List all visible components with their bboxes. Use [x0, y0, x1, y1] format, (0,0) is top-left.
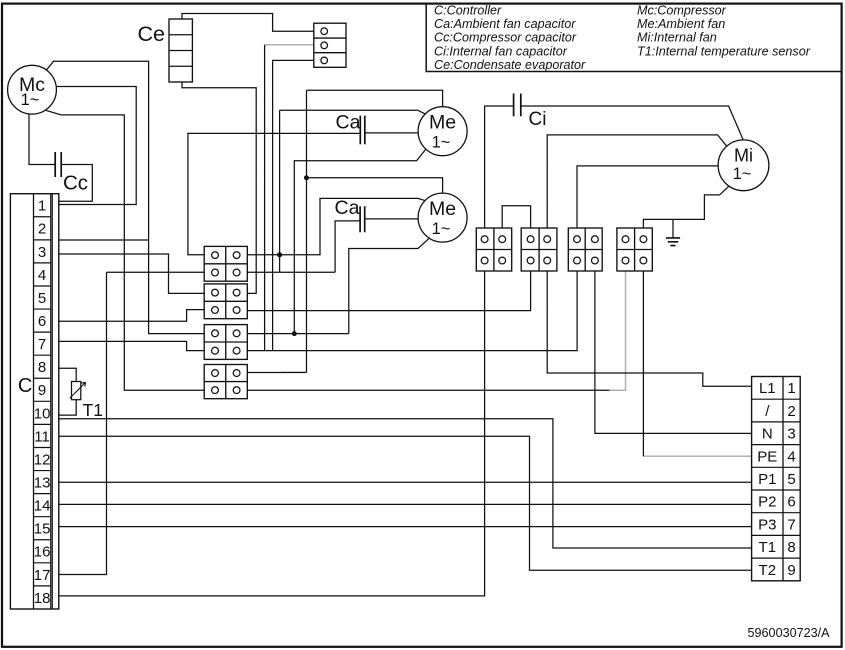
svg-text:10: 10: [34, 405, 51, 422]
svg-text:1~: 1~: [432, 220, 451, 238]
svg-text:Ca:Ambient fan capacitor: Ca:Ambient fan capacitor: [434, 17, 576, 31]
svg-text:2: 2: [38, 221, 46, 238]
svg-text:5: 5: [787, 471, 795, 488]
svg-text:P2: P2: [758, 494, 776, 511]
svg-text:L1: L1: [759, 380, 776, 397]
svg-text:1~: 1~: [21, 91, 40, 109]
svg-text:6: 6: [38, 313, 46, 330]
svg-text:Ci: Ci: [529, 109, 547, 130]
svg-text:17: 17: [34, 567, 51, 584]
svg-text:5960030723/A: 5960030723/A: [748, 626, 831, 640]
svg-text:Ci:Internal fan capacitor: Ci:Internal fan capacitor: [434, 44, 568, 58]
svg-text:14: 14: [34, 498, 51, 515]
svg-text:5: 5: [38, 290, 46, 307]
svg-text:9: 9: [787, 562, 795, 579]
svg-text:Ce: Ce: [138, 22, 165, 46]
svg-text:Ca: Ca: [336, 111, 361, 133]
svg-text:C:Controller: C:Controller: [434, 4, 502, 18]
svg-text:13: 13: [34, 474, 51, 491]
svg-text:1: 1: [38, 198, 46, 215]
svg-text:Me: Me: [429, 112, 456, 134]
svg-text:T1:Internal temperature sensor: T1:Internal temperature sensor: [637, 44, 811, 58]
svg-text:PE: PE: [757, 448, 777, 465]
svg-text:T2: T2: [759, 562, 777, 579]
svg-text:11: 11: [34, 428, 50, 445]
svg-text:3: 3: [38, 244, 46, 261]
svg-text:Ca: Ca: [335, 197, 360, 219]
svg-text:4: 4: [38, 267, 46, 284]
svg-text:8: 8: [38, 359, 46, 376]
svg-text:18: 18: [34, 590, 51, 607]
svg-text:Ce:Condensate evaporator: Ce:Condensate evaporator: [434, 58, 586, 72]
svg-text:3: 3: [787, 426, 795, 443]
svg-text:8: 8: [787, 539, 795, 556]
svg-text:15: 15: [34, 521, 51, 538]
svg-text:T1: T1: [83, 400, 103, 420]
svg-text:T1: T1: [759, 539, 777, 556]
svg-text:Mc:Compressor: Mc:Compressor: [637, 4, 727, 18]
svg-text:1: 1: [787, 380, 795, 397]
svg-text:1~: 1~: [733, 165, 752, 183]
svg-text:Me: Me: [429, 198, 456, 220]
svg-text:4: 4: [787, 448, 795, 465]
svg-text:Mi:Internal fan: Mi:Internal fan: [637, 31, 717, 45]
svg-text:P1: P1: [758, 471, 776, 488]
svg-text:C: C: [18, 375, 32, 397]
svg-text:Mi: Mi: [734, 146, 753, 166]
svg-text:7: 7: [787, 516, 795, 533]
svg-text:N: N: [762, 426, 773, 443]
svg-text:7: 7: [38, 336, 46, 353]
svg-text:2: 2: [787, 403, 795, 420]
svg-text:P3: P3: [758, 516, 776, 533]
svg-text:1~: 1~: [432, 134, 451, 152]
svg-text:Cc:Compressor capacitor: Cc:Compressor capacitor: [434, 31, 577, 45]
svg-text:Cc: Cc: [63, 172, 88, 195]
svg-text:12: 12: [34, 451, 51, 468]
svg-text:Me:Ambient fan: Me:Ambient fan: [637, 17, 725, 31]
svg-text:16: 16: [34, 544, 51, 561]
svg-text:9: 9: [38, 382, 46, 399]
svg-text:6: 6: [787, 494, 795, 511]
